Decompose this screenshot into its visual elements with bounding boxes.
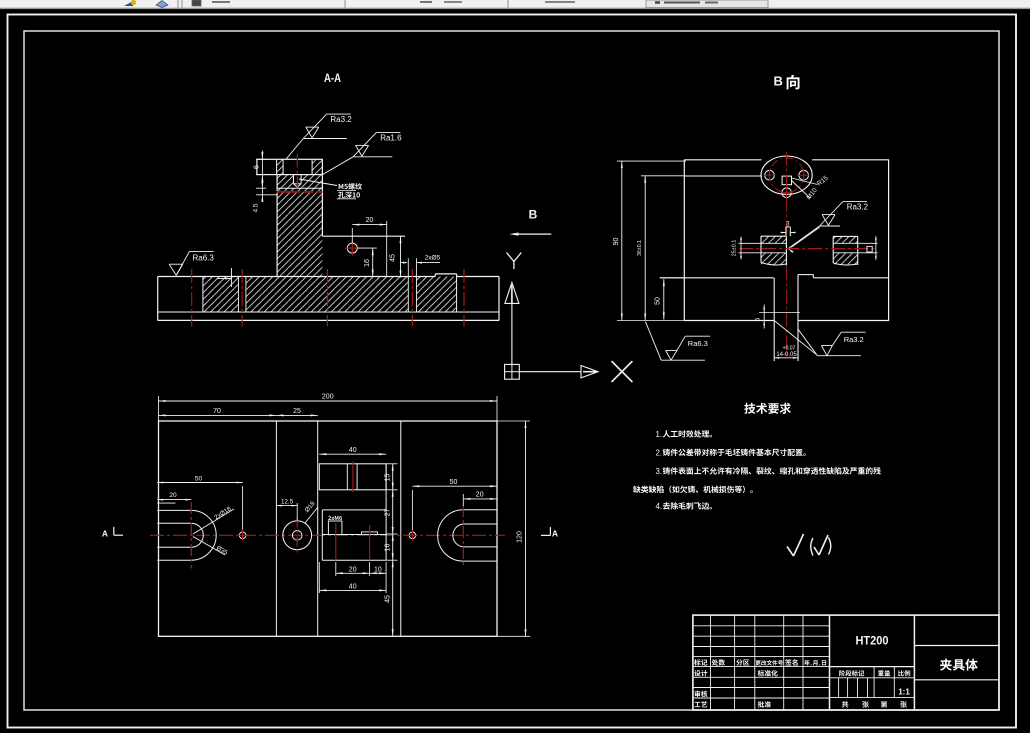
B-view dim 5 bbox=[756, 305, 766, 329]
B direction arrow bbox=[510, 208, 552, 236]
B-view slot red centerline bbox=[739, 248, 876, 250]
small hole left (2xD5) bbox=[237, 530, 248, 542]
dims 70 25 bbox=[159, 408, 318, 416]
svg-text:1:1: 1:1 bbox=[898, 688, 910, 697]
plan outer rect bbox=[159, 421, 498, 636]
dims 20 10 40 below bbox=[319, 562, 386, 593]
svg-text:A: A bbox=[552, 529, 558, 539]
finish marks check bbox=[787, 534, 831, 556]
B-view Ra3.2 mid bbox=[788, 202, 869, 253]
B-view dim 8 right bbox=[858, 236, 878, 260]
svg-text:20: 20 bbox=[169, 492, 177, 499]
center pocket bbox=[322, 464, 386, 560]
B-view dim 36 bbox=[637, 176, 686, 321]
datum tick on base bbox=[217, 268, 232, 287]
title block left grid bbox=[693, 615, 830, 710]
B-view dim 50 bbox=[655, 278, 687, 320]
svg-text:3.: 3. bbox=[656, 467, 663, 476]
svg-text:A-A: A-A bbox=[324, 71, 341, 85]
right vertical dims 15 27 16 45 bbox=[385, 464, 398, 637]
title block middle bbox=[830, 634, 915, 708]
dimension 2xD5 bbox=[401, 255, 441, 277]
plan division lines bbox=[276, 421, 400, 636]
dimension 4.5 (thread depth) bbox=[253, 181, 278, 213]
svg-text:14-0.05: 14-0.05 bbox=[776, 352, 797, 358]
section arrows A-A bbox=[102, 527, 558, 539]
B-view dim 90 bbox=[613, 161, 686, 320]
left slot leaders bbox=[193, 505, 234, 557]
B-view right clamp block bbox=[833, 236, 858, 265]
A-A M5 hole bbox=[294, 175, 302, 188]
svg-text:25±0.1: 25±0.1 bbox=[732, 240, 738, 256]
B-view dim 25 left bbox=[732, 237, 762, 260]
svg-text:2xØ5: 2xØ5 bbox=[425, 255, 441, 262]
dimension 16 bbox=[357, 248, 377, 276]
title block right bbox=[914, 646, 999, 680]
dim 20 right bbox=[463, 492, 497, 506]
dimension 6 (cap) bbox=[254, 151, 267, 184]
B-view boss circle bbox=[761, 156, 812, 198]
surface mark Ra1.6 bbox=[322, 132, 402, 174]
svg-text:40: 40 bbox=[349, 447, 357, 454]
UCS Y axis bbox=[505, 253, 521, 365]
svg-text:40: 40 bbox=[349, 583, 357, 590]
A-A centerlines red bbox=[192, 154, 464, 327]
A-A side hole with red cross bbox=[345, 241, 360, 256]
svg-text:10: 10 bbox=[374, 566, 382, 573]
dim 50 right bbox=[412, 479, 497, 530]
right slot bbox=[438, 505, 497, 566]
svg-text:27: 27 bbox=[385, 509, 392, 517]
center circle bbox=[283, 518, 312, 554]
tech requirements body bbox=[633, 430, 881, 511]
svg-text:15: 15 bbox=[385, 474, 392, 482]
svg-text:Ra1.6: Ra1.6 bbox=[380, 134, 402, 143]
dim 200 top bbox=[159, 394, 498, 422]
title block outline bbox=[693, 615, 999, 710]
left slot bbox=[157, 492, 216, 569]
title block left texts bbox=[694, 659, 826, 707]
svg-text:B: B bbox=[774, 74, 783, 89]
UCS origin box bbox=[505, 364, 520, 379]
svg-text:Ra3.2: Ra3.2 bbox=[844, 335, 864, 344]
svg-text:1.: 1. bbox=[656, 430, 663, 439]
dim 50 left bbox=[157, 476, 242, 531]
B-view boss red marks bbox=[764, 158, 810, 199]
UCS X axis bbox=[519, 361, 632, 382]
tech requirements title bbox=[744, 403, 791, 414]
svg-text:90: 90 bbox=[613, 238, 620, 246]
A-A stem outline bbox=[277, 175, 322, 277]
toolbar strip bbox=[0, 0, 1030, 9]
A-A 2xD5 hole walls bbox=[239, 277, 417, 313]
svg-text:200: 200 bbox=[322, 394, 334, 401]
svg-text:B: B bbox=[529, 208, 538, 222]
svg-text:Ra6.3: Ra6.3 bbox=[688, 339, 708, 348]
svg-text:70: 70 bbox=[213, 408, 221, 415]
svg-text:12.5: 12.5 bbox=[281, 498, 294, 505]
top center rect bbox=[319, 462, 386, 492]
surface mark Ra6.3 left bbox=[169, 251, 214, 275]
A-A hatch areas bbox=[203, 159, 457, 312]
svg-text:+0.07: +0.07 bbox=[783, 346, 796, 352]
B-view body outline bbox=[660, 160, 889, 321]
A-A step bbox=[322, 235, 405, 237]
B-view left clamp block bbox=[761, 236, 786, 265]
small hole right bbox=[407, 530, 418, 542]
svg-text:Ra6.3: Ra6.3 bbox=[193, 254, 215, 263]
B-view dim 14 bbox=[774, 346, 798, 359]
svg-text:45: 45 bbox=[390, 254, 397, 262]
svg-text:16: 16 bbox=[385, 544, 392, 552]
svg-text:4.5: 4.5 bbox=[253, 203, 260, 212]
B-view Ra3.2 bottom right bbox=[817, 332, 865, 356]
svg-text:50: 50 bbox=[450, 479, 458, 486]
svg-text:20: 20 bbox=[366, 217, 374, 224]
svg-text:120: 120 bbox=[517, 531, 524, 543]
B-view lower stem bbox=[759, 275, 817, 362]
surface mark Ra3.2 top bbox=[286, 114, 352, 159]
svg-text:HT200: HT200 bbox=[856, 634, 889, 648]
svg-text:4.: 4. bbox=[656, 502, 663, 511]
svg-text:50: 50 bbox=[655, 297, 662, 305]
dim 40 top bbox=[319, 447, 386, 455]
svg-text:6: 6 bbox=[254, 165, 261, 169]
plan horizontal centerline red bbox=[150, 534, 505, 536]
dimension 45 (step) bbox=[390, 236, 402, 277]
svg-text:A: A bbox=[102, 529, 108, 539]
dim 12.5 bbox=[276, 498, 297, 521]
svg-text:25: 25 bbox=[293, 408, 301, 415]
B-view Ra6.3 bottom left bbox=[646, 322, 711, 361]
B-view boss leaders R15 M10 bbox=[792, 174, 830, 201]
svg-text:20: 20 bbox=[349, 566, 357, 573]
svg-text:16: 16 bbox=[364, 259, 371, 267]
M5 leader and label bbox=[299, 179, 362, 199]
svg-text:45: 45 bbox=[385, 595, 392, 603]
A-A thread red line bbox=[277, 191, 323, 193]
A-A base outline bbox=[158, 274, 499, 321]
svg-text:Ra3.2: Ra3.2 bbox=[847, 203, 869, 212]
svg-text:36±0.1: 36±0.1 bbox=[637, 240, 643, 256]
svg-text:2.: 2. bbox=[656, 448, 663, 457]
B-view main centerline red bbox=[786, 152, 788, 359]
svg-text:Ra3.2: Ra3.2 bbox=[330, 115, 352, 124]
svg-text:50: 50 bbox=[195, 476, 203, 483]
dimension 20 bbox=[352, 217, 386, 276]
A-A cap outline bbox=[257, 159, 323, 174]
dim 120 right bbox=[497, 421, 530, 636]
leader D18 bbox=[304, 500, 318, 523]
svg-text:20: 20 bbox=[476, 492, 484, 499]
B-view pin on block bbox=[781, 222, 796, 237]
